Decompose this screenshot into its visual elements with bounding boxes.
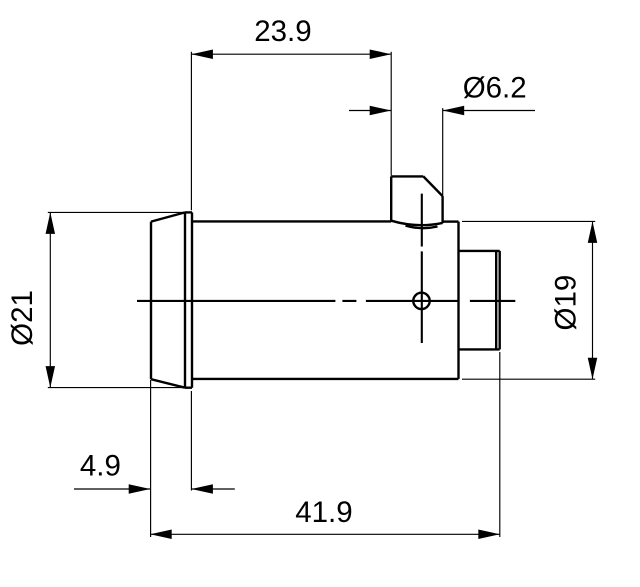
dim 6.2 left arrow (370, 106, 392, 116)
flange left face (150, 222, 152, 380)
dim 4.9 right arrow (191, 484, 213, 494)
dim 21 bottom arrow (46, 366, 56, 388)
dim 21 dimension line (49, 212, 51, 387)
svg-text:41.9: 41.9 (295, 496, 352, 529)
dim 19 bottom extension line (462, 378, 595, 380)
step cylinder top edge (459, 250, 500, 252)
boss top edge (391, 175, 423, 177)
dim 4.9 right tail line (191, 488, 234, 490)
dim 41.9 left arrow (150, 530, 172, 540)
dim 6.2 right arrow (443, 106, 465, 116)
dim 23.9 dimension line (191, 53, 391, 55)
boss right edge (441, 196, 443, 223)
dim 41.9 dimension line (150, 533, 500, 535)
dim 21 top arrow (46, 212, 56, 234)
boss left edge (390, 176, 392, 221)
dim 6.2 left tail line (349, 110, 391, 112)
dim 21 bottom extension line (48, 387, 185, 389)
svg-text:Ø19: Ø19 (549, 275, 582, 331)
dim 19 top extension line (462, 220, 595, 222)
center hole circle (413, 293, 429, 309)
flange right face outer line (191, 212, 193, 387)
body bottom edge (192, 378, 459, 380)
dim 4.9 left arrow (129, 484, 151, 494)
boss chamfer edge (423, 176, 442, 196)
dim 19 bottom arrow (588, 358, 598, 380)
dim 23.9 right arrow (370, 49, 392, 59)
dim 4.9 left tail line (74, 488, 150, 490)
boss base intersection arc (391, 221, 442, 225)
body right face (457, 222, 459, 379)
step cylinder bottom edge (459, 348, 500, 350)
dim 6.2 right tail line (443, 110, 535, 112)
flange right face inner line (184, 212, 186, 387)
step end face outer line (499, 251, 501, 350)
dim 4.9 right extension line (190, 391, 192, 491)
svg-text:23.9: 23.9 (254, 15, 311, 48)
flange bottom rim (185, 387, 192, 389)
dim 19 dimension line (592, 221, 594, 379)
flange top taper edge (151, 212, 185, 221)
dim 41.9 right extension line (499, 352, 501, 537)
dim 6.2 right extension line (442, 108, 444, 196)
dim 23.9 left extension line (190, 52, 192, 211)
boss vertical centerline (421, 194, 423, 343)
svg-text:Ø6.2: Ø6.2 (463, 72, 527, 105)
body top edge right of boss (443, 220, 459, 222)
flange top rim (185, 211, 192, 213)
flange bottom taper edge (151, 379, 185, 388)
dim 19 top arrow (588, 221, 598, 243)
boss base inner arc (406, 226, 438, 229)
dim 41.9 right arrow (478, 530, 500, 540)
svg-text:Ø21: Ø21 (6, 290, 39, 346)
dim 23.9 right extension line (390, 52, 392, 176)
svg-text:4.9: 4.9 (80, 450, 121, 483)
dim 23.9 left arrow (191, 49, 213, 59)
body top edge left of boss (192, 220, 391, 222)
step end face inner line (495, 251, 497, 350)
dim 21 top extension line (48, 211, 185, 213)
dim 4.9 left extension line (150, 380, 152, 537)
horizontal centerline (137, 300, 515, 302)
